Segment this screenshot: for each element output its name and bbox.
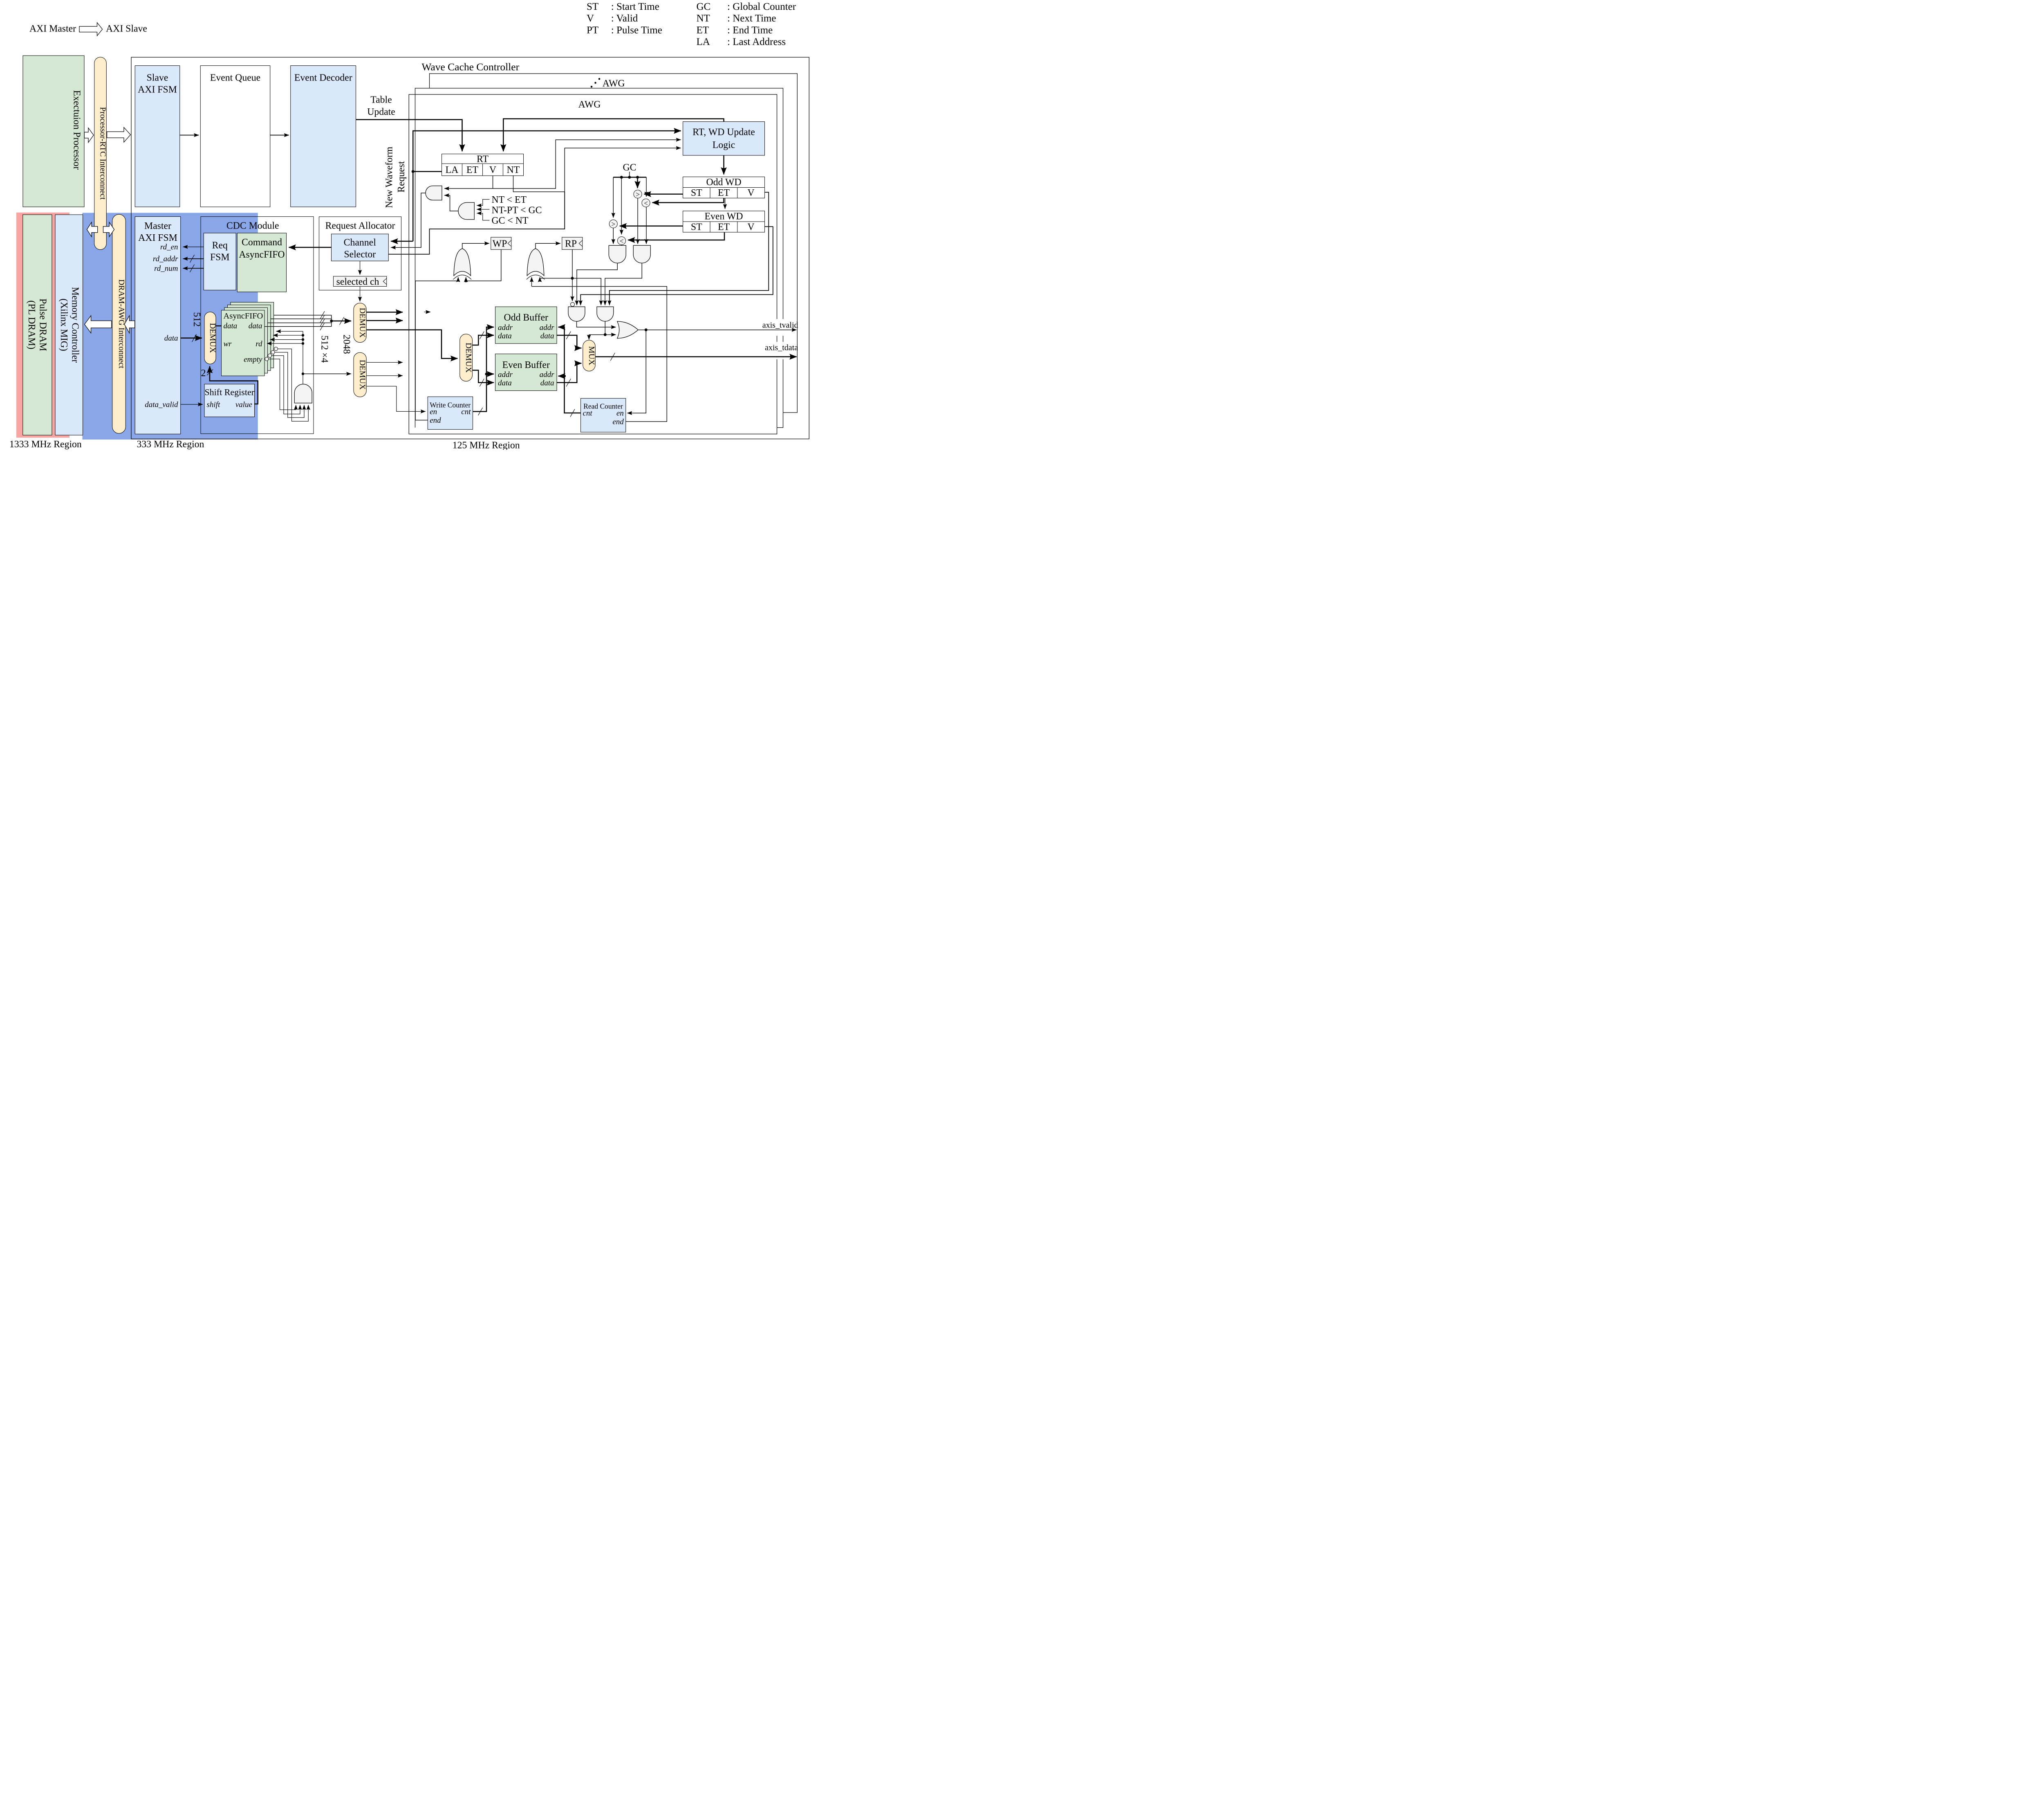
AWG box 1 (back) visible edges bbox=[430, 74, 798, 413]
XOR gate WP toggle bbox=[454, 249, 471, 276]
Odd WD table box bbox=[683, 177, 765, 198]
AWG box 3 (front) bbox=[409, 94, 777, 434]
svg-text:ET: ET bbox=[718, 222, 730, 233]
small arrow inside AWG stack bbox=[424, 311, 431, 313]
svg-text:AWG: AWG bbox=[603, 78, 625, 89]
outer Wave Cache Controller box bbox=[131, 57, 809, 439]
svg-text:CDC Module: CDC Module bbox=[226, 220, 279, 231]
wire rd lines to FIFOs bbox=[276, 330, 303, 332]
Command AsyncFIFO box bbox=[237, 233, 286, 292]
wire Req FSM rd_en to Master AXI FSM bbox=[183, 246, 204, 248]
wire WP feedback bbox=[466, 249, 501, 281]
svg-text:en: en bbox=[616, 409, 624, 418]
svg-text:: Next Time: : Next Time bbox=[727, 13, 776, 24]
RP register bbox=[562, 237, 583, 249]
svg-text:DEMUX: DEMUX bbox=[464, 343, 473, 373]
Write Counter box bbox=[428, 397, 473, 429]
empty wires to AND gate bbox=[269, 359, 296, 410]
bubble on write AND input bbox=[571, 303, 575, 307]
read AND gate bbox=[597, 307, 614, 321]
wire XOR2 inputs bbox=[539, 277, 541, 278]
svg-text:Table: Table bbox=[370, 94, 392, 105]
svg-text:NT: NT bbox=[697, 13, 710, 24]
wire read addr to Even Buffer bbox=[558, 374, 565, 378]
svg-text:: Global Counter: : Global Counter bbox=[727, 1, 796, 12]
Even Buffer box bbox=[495, 354, 557, 391]
RP clock chevron bbox=[579, 240, 583, 247]
svg-text:en: en bbox=[430, 408, 437, 416]
svg-text:Request: Request bbox=[396, 161, 407, 193]
svg-text:Wave Cache Controller: Wave Cache Controller bbox=[421, 61, 519, 73]
DEMUX2 pill bbox=[354, 352, 366, 397]
svg-text:Event Queue: Event Queue bbox=[210, 73, 260, 83]
write DEMUX out to Even Buffer data bbox=[473, 370, 494, 383]
svg-text:Even WD: Even WD bbox=[705, 211, 743, 222]
svg-text:data: data bbox=[498, 379, 512, 388]
svg-text:2048: 2048 bbox=[341, 334, 352, 354]
WP clock chevron bbox=[508, 240, 511, 247]
Req FSM box bbox=[204, 233, 236, 290]
svg-text:AXI Slave: AXI Slave bbox=[106, 24, 147, 34]
svg-text:shift: shift bbox=[207, 401, 220, 409]
stub GC < NT to G2 bbox=[477, 213, 489, 220]
wire RP feedback down bbox=[571, 249, 574, 301]
wire NWR into Channel Selector bbox=[391, 239, 413, 243]
svg-text:data: data bbox=[498, 332, 512, 341]
svg-text:ST: ST bbox=[691, 222, 702, 233]
svg-text:ST: ST bbox=[691, 188, 702, 198]
comparator circle Even greater bbox=[609, 220, 617, 228]
Event Queue box bbox=[200, 66, 270, 207]
Request Allocator box bbox=[319, 217, 401, 290]
svg-text:AsyncFIFO: AsyncFIFO bbox=[239, 249, 285, 260]
AND gate G1 (V and compare) pointing left bbox=[426, 186, 442, 200]
junction dot on NWR at RT LA row bbox=[412, 170, 415, 173]
svg-text:Even Buffer: Even Buffer bbox=[502, 360, 550, 370]
wire GC to Even less-comparator bbox=[621, 177, 623, 235]
svg-text:RT: RT bbox=[477, 154, 489, 164]
wire Even Buffer data out to MUX bbox=[557, 363, 581, 383]
svg-text:<: < bbox=[620, 237, 624, 245]
svg-text:New Waveform: New Waveform bbox=[384, 146, 394, 208]
wire RT V cell down to G1 input 1 bbox=[444, 176, 493, 188]
wire XOR2 out to RP bbox=[536, 243, 560, 249]
new waveform request wire: up to RT WD update logic input 1 bbox=[413, 131, 681, 241]
wire Odd V wrap to read AND bbox=[610, 192, 769, 305]
svg-text:PT: PT bbox=[587, 25, 598, 36]
svg-text:selected ch: selected ch bbox=[336, 276, 379, 287]
svg-text:Command: Command bbox=[242, 237, 282, 248]
svg-text:ET: ET bbox=[697, 25, 709, 36]
wire G2 output to G1 input 2 bbox=[444, 195, 458, 211]
svg-text:125 MHz Region: 125 MHz Region bbox=[453, 440, 520, 450]
Execution Processor box bbox=[23, 56, 84, 207]
block arrow pill to DRAM-AWG pill (right) bbox=[103, 222, 114, 237]
AsyncFIFO stack back boxes bbox=[231, 302, 274, 368]
DEMUX pill (data fan-out) bbox=[204, 312, 216, 364]
wire OR out axis_tvalid bbox=[638, 329, 797, 331]
MUX pill bbox=[583, 340, 596, 371]
svg-text:empty: empty bbox=[244, 355, 262, 364]
slash cnt bbox=[478, 408, 483, 415]
wire AND output up to rd lines and DEMUX2 bbox=[302, 331, 304, 384]
svg-text:(Xilinx MIG): (Xilinx MIG) bbox=[58, 298, 69, 351]
svg-text:FSM: FSM bbox=[210, 252, 230, 262]
svg-text:LA: LA bbox=[697, 36, 710, 47]
wire write addr to Even Buffer bbox=[486, 372, 494, 376]
svg-text:V: V bbox=[747, 222, 754, 233]
svg-text:addr: addr bbox=[498, 370, 513, 379]
slash rd_num bbox=[190, 265, 195, 272]
svg-text:: End Time: : End Time bbox=[727, 25, 773, 36]
svg-text:rd_addr: rd_addr bbox=[153, 255, 178, 263]
svg-text:GC: GC bbox=[697, 1, 711, 12]
wire read AND out to OR and MUX select bbox=[605, 321, 616, 335]
block arrow Processor-RTC pill to Slave AXI FSM bbox=[107, 128, 131, 142]
RT, WD Update Logic box bbox=[683, 122, 765, 156]
block arrow Execution Processor to Processor-RTC pill bbox=[84, 128, 94, 143]
wire Odd WD ET down-arrow into Even WD bbox=[724, 198, 726, 209]
wire table update from Event Decoder into RT bbox=[356, 120, 462, 152]
svg-text:DEMUX: DEMUX bbox=[358, 360, 367, 390]
write AND gate bbox=[568, 307, 585, 321]
wire GC to Even greater-comparator bbox=[612, 177, 615, 218]
stub NT-PT < GC to G2 bbox=[477, 209, 489, 211]
svg-text:>: > bbox=[636, 190, 640, 198]
svg-text:Req: Req bbox=[212, 240, 228, 251]
OR gate bbox=[617, 321, 638, 339]
dot write addr branch bbox=[485, 372, 488, 375]
wire 2048 bus to DEMUX1 bbox=[332, 319, 351, 323]
bus merge bar bbox=[330, 315, 333, 327]
svg-text:ET: ET bbox=[718, 188, 730, 198]
svg-text:data_valid: data_valid bbox=[145, 400, 178, 409]
svg-text:AXI FSM: AXI FSM bbox=[138, 233, 177, 243]
333 MHz region band bbox=[83, 213, 258, 440]
wires comparators into even AND bbox=[612, 228, 615, 244]
svg-text:>: > bbox=[611, 220, 615, 228]
svg-text:DEMUX: DEMUX bbox=[208, 323, 217, 353]
svg-text:333 MHz Region: 333 MHz Region bbox=[137, 439, 204, 450]
wire tvalid to Read Counter en bbox=[627, 330, 646, 413]
svg-text:addr: addr bbox=[498, 323, 513, 332]
slash odd data out bbox=[566, 332, 571, 339]
Even WD table box bbox=[683, 211, 765, 232]
write DEMUX out to Odd Buffer data bbox=[473, 335, 494, 345]
wire write AND out to OR bbox=[577, 321, 616, 327]
svg-text:Request Allocator: Request Allocator bbox=[325, 220, 395, 231]
wire Even V wrap to write AND bbox=[580, 227, 773, 305]
Slave AXI FSM box bbox=[135, 66, 180, 207]
svg-text:<: < bbox=[644, 199, 648, 207]
Read Counter box bbox=[581, 398, 626, 432]
svg-text:wr: wr bbox=[224, 340, 232, 348]
svg-text:RP: RP bbox=[565, 238, 577, 249]
Odd Buffer box bbox=[495, 307, 557, 343]
svg-text:ET: ET bbox=[466, 165, 479, 175]
wire Write Counter cnt to buffers write addr bbox=[473, 327, 494, 412]
svg-text:data: data bbox=[540, 332, 554, 341]
svg-text:AWG: AWG bbox=[578, 99, 601, 110]
wire RT V line wrap up to RT WD Update Logic input 2 bbox=[493, 140, 681, 188]
svg-text:addr: addr bbox=[540, 323, 555, 332]
svg-text:axis_tdata: axis_tdata bbox=[765, 343, 798, 352]
DEMUX1 pill bbox=[354, 303, 366, 342]
slash data bbox=[192, 334, 197, 342]
wire data from Master AXI FSM to DEMUX bbox=[181, 336, 202, 340]
AWG box 2 visible edges bbox=[415, 88, 783, 428]
DEMUX2 outputs bbox=[366, 361, 403, 363]
comparator circle Even less bbox=[618, 237, 626, 245]
svg-text:V: V bbox=[747, 188, 754, 198]
svg-text:Processor-RTC Interconnect: Processor-RTC Interconnect bbox=[99, 107, 108, 200]
svg-text:V: V bbox=[489, 165, 496, 175]
svg-text:Pulse DRAM: Pulse DRAM bbox=[38, 298, 48, 351]
selected ch clock chevron bbox=[383, 278, 387, 285]
1333 MHz region band bbox=[16, 213, 69, 438]
svg-text:Shift Register: Shift Register bbox=[204, 387, 254, 397]
svg-text:2: 2 bbox=[201, 368, 206, 379]
svg-text:Selector: Selector bbox=[344, 249, 376, 260]
wire Odd ET to comparator bbox=[652, 198, 724, 203]
wire selected ch to DEMUX1 bbox=[359, 287, 361, 302]
svg-text:(PL DRAM): (PL DRAM) bbox=[26, 301, 37, 350]
svg-text:axis_tvalid: axis_tvalid bbox=[762, 321, 798, 330]
CDC Module box bbox=[201, 217, 314, 434]
AsyncFIFO front box bbox=[222, 310, 265, 376]
wire Slave AXI FSM to Event Queue bbox=[180, 134, 199, 137]
XOR gate RP toggle bbox=[527, 249, 544, 276]
block arrow DRAM-AWG pill to Memory Controller bbox=[85, 316, 112, 333]
wires comparators into odd AND bbox=[637, 198, 639, 244]
svg-text:cnt: cnt bbox=[461, 408, 471, 416]
svg-text:Logic: Logic bbox=[713, 140, 735, 150]
wire XOR1 out to WP bbox=[462, 243, 489, 249]
wire Channel Selector to selected ch bbox=[359, 261, 361, 275]
svg-text:512: 512 bbox=[191, 312, 202, 327]
svg-text:Odd Buffer: Odd Buffer bbox=[504, 312, 548, 323]
block arrow Master AXI FSM to DRAM-AWG pill bbox=[124, 316, 135, 333]
svg-text:rd_num: rd_num bbox=[154, 265, 178, 273]
wire NWR junction to RT LA bbox=[413, 170, 442, 174]
wire XOR1 inputs bbox=[465, 277, 467, 281]
AWG box 1 label dots bbox=[591, 86, 593, 88]
svg-text:LA: LA bbox=[446, 165, 459, 175]
DEMUX1 outputs (to AWG instances) bbox=[366, 310, 403, 314]
svg-text:data: data bbox=[249, 322, 262, 330]
svg-text:NT-PT < GC: NT-PT < GC bbox=[492, 205, 542, 215]
svg-text:addr: addr bbox=[540, 370, 555, 379]
wire Odd ST to comparator bbox=[644, 192, 683, 196]
svg-text:512 ×4: 512 ×4 bbox=[319, 335, 329, 363]
wire DEMUX to FIFO data input bbox=[216, 324, 222, 328]
svg-text:Odd WD: Odd WD bbox=[706, 177, 742, 188]
wire Channel Selector to Command AsyncFIFO bbox=[289, 245, 332, 249]
Channel Selector box bbox=[332, 234, 389, 261]
wire MUX select bbox=[589, 335, 605, 340]
wire RT WD Update Logic to Odd WD bbox=[722, 155, 726, 175]
wire AND output branch to DEMUX2 bbox=[303, 373, 351, 375]
svg-text:AsyncFIFO: AsyncFIFO bbox=[224, 312, 263, 321]
wire data_valid to Shift Register bbox=[181, 404, 203, 406]
svg-text:value: value bbox=[235, 401, 252, 409]
dot read addr branch bbox=[563, 375, 566, 377]
wire Event Queue to Event Decoder bbox=[270, 134, 289, 137]
wire GC to Odd less-comparator bbox=[645, 177, 648, 197]
empty bubbles on FIFO outputs bbox=[265, 357, 269, 361]
svg-text:1333 MHz Region: 1333 MHz Region bbox=[9, 439, 82, 450]
svg-text:cnt: cnt bbox=[583, 409, 593, 418]
svg-text:: Last Address: : Last Address bbox=[727, 36, 786, 47]
slash axis_tdata bbox=[610, 353, 615, 361]
AND gate even-compare pointing down bbox=[609, 245, 626, 263]
wire even AND out to write AND bbox=[577, 263, 617, 305]
Event Decoder box bbox=[291, 66, 356, 207]
wire rd_addr bbox=[183, 257, 204, 260]
Memory Controller (Xilinx MIG) box bbox=[55, 215, 83, 435]
WP register bbox=[491, 237, 511, 249]
slash on select bbox=[207, 370, 213, 376]
svg-text:MUX: MUX bbox=[587, 346, 596, 366]
slash rd_addr bbox=[190, 255, 195, 262]
slash 2048 bbox=[340, 317, 344, 325]
RT table box bbox=[442, 154, 524, 176]
svg-text:NT < ET: NT < ET bbox=[492, 195, 527, 205]
svg-text:: Pulse Time: : Pulse Time bbox=[611, 25, 662, 36]
Shift Register box bbox=[204, 384, 255, 417]
wire RT NT cell wrap to RT WD Update Logic input 3 bbox=[513, 148, 681, 192]
wire Odd Buffer data out to MUX bbox=[557, 335, 581, 348]
svg-text:WP: WP bbox=[493, 238, 507, 249]
slashes on bus lines bbox=[320, 311, 325, 319]
stub NT < ET to G2 bbox=[477, 200, 489, 206]
svg-text:Channel: Channel bbox=[344, 238, 377, 248]
svg-text:ST: ST bbox=[587, 1, 598, 12]
svg-text:Event Decoder: Event Decoder bbox=[294, 73, 352, 83]
wire MUX out axis_tdata bbox=[595, 355, 796, 359]
GC bus bbox=[613, 175, 646, 179]
Pulse DRAM (PL DRAM) box bbox=[23, 215, 52, 435]
svg-text:RT, WD Update: RT, WD Update bbox=[693, 127, 755, 138]
svg-text:rd_en: rd_en bbox=[160, 243, 178, 251]
wire read-enable line to Read Counter end bbox=[532, 287, 667, 422]
slash even data in bbox=[480, 379, 484, 386]
selected ch register bbox=[334, 276, 387, 287]
svg-text:GC: GC bbox=[623, 162, 637, 173]
wire table update upper branch to RT and RT WD Update Logic top bbox=[503, 119, 724, 152]
slash read cnt bbox=[570, 409, 575, 417]
svg-text:data: data bbox=[164, 334, 178, 343]
DRAM-AWG Interconnect pill bbox=[112, 214, 126, 433]
wire RP line to XOR2 input and read AND bbox=[540, 278, 601, 305]
GC stub bbox=[628, 172, 631, 177]
svg-text:AXI Master: AXI Master bbox=[29, 24, 76, 34]
slash odd data in bbox=[480, 332, 484, 339]
wire Read Counter cnt to buffers read addr bbox=[558, 327, 581, 413]
AND gate odd-compare pointing down bbox=[633, 245, 650, 263]
svg-text:Update: Update bbox=[367, 107, 395, 117]
block arrow pill to Memory Controller (left) bbox=[87, 222, 98, 237]
AND gate (all FIFOs ready) pointing up bbox=[294, 384, 312, 403]
wire odd AND output to read AND bbox=[605, 263, 642, 305]
svg-text:end: end bbox=[612, 418, 624, 426]
DEMUX1 output 3 to write DEMUX bbox=[366, 330, 457, 359]
legend block arrow bbox=[79, 22, 103, 36]
wire NT line down to Channel Selector bbox=[388, 192, 565, 254]
Master AXI FSM box bbox=[135, 217, 181, 434]
svg-text:data: data bbox=[540, 379, 554, 388]
slash even data out bbox=[566, 379, 571, 386]
svg-text:V: V bbox=[587, 13, 594, 24]
wire Even ST to comparator bbox=[620, 224, 683, 228]
FIFO data output bus lines bbox=[274, 314, 332, 316]
comparator circle Odd greater bbox=[634, 190, 642, 198]
svg-text:Master: Master bbox=[144, 221, 171, 231]
gap masks on AWG edges at axis labels bbox=[774, 319, 796, 336]
svg-text:: Start Time: : Start Time bbox=[611, 1, 659, 12]
wire write-end to XOR1 and Write Counter end bbox=[415, 281, 458, 420]
comparator circle Odd less bbox=[642, 199, 650, 207]
svg-text:Memory Controller: Memory Controller bbox=[69, 287, 80, 363]
svg-text:end: end bbox=[430, 416, 441, 425]
write DEMUX pill bbox=[460, 334, 473, 381]
Processor-RTC Interconnect pill bbox=[94, 57, 107, 250]
wire GC to Odd greater-comparator bbox=[636, 177, 640, 188]
svg-text:data: data bbox=[224, 322, 238, 330]
AND gate G2 (time comparisons) pointing left bbox=[458, 202, 474, 220]
svg-text:NT: NT bbox=[507, 165, 520, 175]
wire G1 output down to Channel Selector bbox=[391, 193, 426, 247]
svg-text:: Valid: : Valid bbox=[611, 13, 638, 24]
svg-text:DEMUX: DEMUX bbox=[358, 308, 367, 338]
svg-text:GC < NT: GC < NT bbox=[492, 215, 529, 226]
svg-text:Slave: Slave bbox=[147, 73, 168, 83]
wire rd_num bbox=[183, 267, 204, 270]
DEMUX2 output 3 to Write Counter en bbox=[366, 386, 426, 412]
svg-text:rd: rd bbox=[255, 340, 262, 348]
svg-text:Exectuion Processor: Exectuion Processor bbox=[72, 90, 82, 170]
wire Even ET to comparator bbox=[628, 232, 724, 240]
RT table cell separators bbox=[442, 164, 524, 176]
svg-text:AXI FSM: AXI FSM bbox=[138, 84, 177, 95]
wire value to DEMUX select bbox=[210, 366, 258, 404]
